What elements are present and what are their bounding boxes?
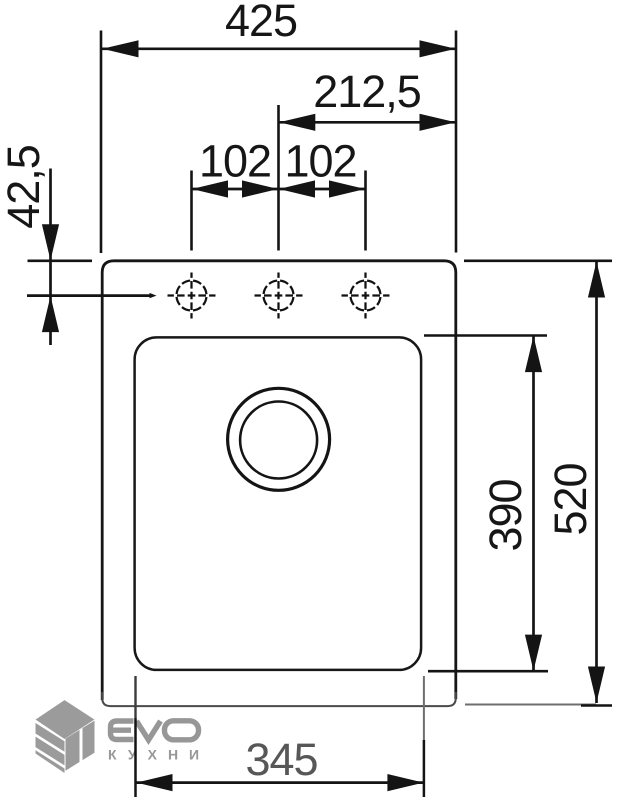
- svg-text:345: 345: [245, 734, 317, 785]
- dim 345 arrow left: [136, 774, 172, 791]
- dim 520 arrow down: [588, 667, 605, 703]
- sink outline (left, top, right edges): [102, 261, 456, 700]
- dim 520 extension bottom black tick: [581, 704, 612, 706]
- dim 345 extension line left black part: [134, 718, 137, 797]
- dim 345 arrow right: [387, 774, 423, 791]
- cube left slat 2: [36, 737, 65, 766]
- dim 102 bowtie arrow left: [242, 180, 278, 197]
- faucet hole 2: [255, 273, 303, 319]
- svg-text:212,5: 212,5: [313, 66, 421, 117]
- letter o: [165, 721, 199, 740]
- dim 212.5 arrow left: [279, 114, 315, 131]
- dim 42.5 arrow up: [42, 296, 59, 332]
- svg-text:425: 425: [225, 0, 297, 46]
- dim 520 extension bottom gray: [465, 704, 596, 706]
- dim 42.5 top tick: [28, 259, 93, 262]
- sink outline bottom edge (gray): [102, 692, 456, 706]
- dim 390 arrow down: [525, 635, 542, 671]
- dim 212.5 arrow right: [420, 114, 456, 131]
- inner bowl: [135, 337, 422, 670]
- faucet hole 1: [168, 273, 216, 319]
- dim 345 extension line right gray part: [423, 676, 425, 740]
- svg-text:390: 390: [480, 479, 531, 551]
- dim 345 extension line left gray part: [134, 676, 136, 718]
- dim 390 extension bottom: [428, 670, 548, 673]
- dim 212.5 line: [279, 121, 456, 124]
- dim 390 extension top: [424, 334, 547, 337]
- logo text evo: [111, 721, 199, 740]
- dim 520 line: [595, 261, 598, 703]
- letter e: [111, 721, 134, 740]
- dim 520 arrow up: [588, 261, 605, 297]
- dim 425/212.5 extension line right: [455, 31, 458, 253]
- svg-text:42,5: 42,5: [0, 145, 49, 229]
- cube right slab wide: [83, 721, 95, 761]
- dim 102 arrow far right: [329, 180, 365, 197]
- dim 102 bowtie arrow right: [279, 180, 315, 197]
- dim 390 line: [532, 336, 535, 671]
- dim 425 arrow right: [420, 40, 456, 57]
- cube top face: [36, 700, 95, 739]
- dim 390 arrow up: [525, 336, 542, 372]
- dim 102 extension line left: [190, 171, 193, 251]
- dim 42.5 arrow down: [42, 224, 59, 260]
- dim 42.5 tick pointed end: [150, 293, 157, 298]
- dim 425 line: [102, 47, 456, 50]
- cube right slat narrow: [66, 730, 80, 771]
- svg-text:102: 102: [199, 136, 271, 187]
- dim 102 line: [192, 188, 366, 191]
- dim 102 extension line right: [364, 171, 367, 251]
- svg-text:102: 102: [284, 136, 356, 187]
- dim 345 extension line right black part: [423, 740, 426, 797]
- dim 212.5 extension line (middle hole): [277, 105, 280, 251]
- faucet hole 3: [342, 273, 390, 319]
- cube left slat 1: [36, 723, 65, 752]
- cube left slat 3: [36, 750, 65, 779]
- dim 42.5 vertical line: [49, 169, 52, 346]
- dim 425 arrow left: [102, 40, 138, 57]
- dim 520 extension top: [464, 259, 612, 262]
- dim 102 arrow far left: [192, 180, 228, 197]
- dim 42.5 bottom tick (hole centerline): [27, 294, 151, 297]
- logo cube icon: [36, 700, 95, 779]
- drain inner circle: [240, 402, 317, 479]
- svg-text:КУХНИ: КУХНИ: [108, 747, 210, 763]
- svg-text:520: 520: [545, 463, 596, 535]
- dim 425 extension line left: [100, 31, 103, 254]
- drain outer circle: [228, 388, 330, 490]
- letter v: [137, 721, 161, 740]
- dim 345 line: [136, 781, 424, 784]
